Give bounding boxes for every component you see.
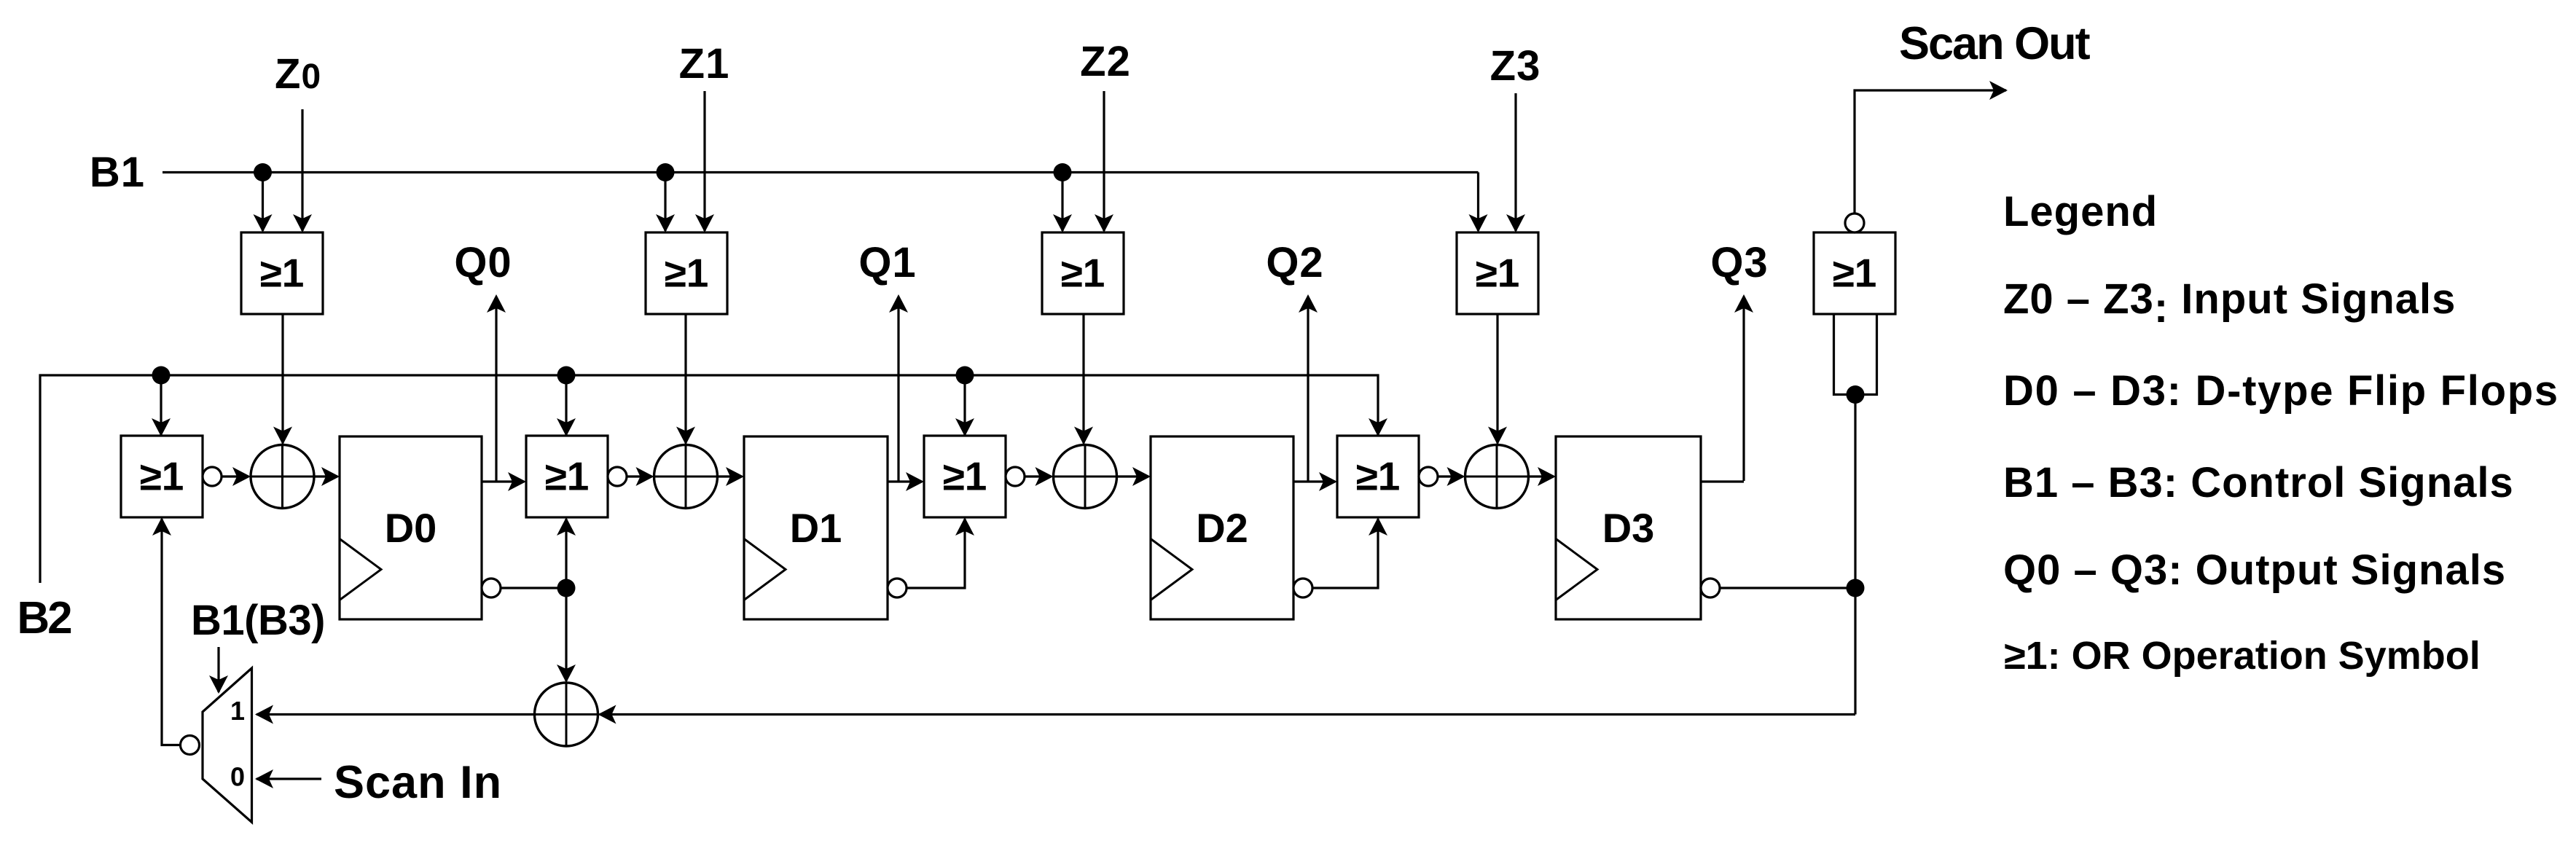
label Z1	[679, 40, 730, 87]
bubble D1 inverted output	[888, 579, 907, 597]
junction B1/O1	[254, 163, 272, 181]
svg-text:B2: B2	[17, 593, 71, 643]
svg-text:≥1: ≥1	[1476, 251, 1520, 296]
xor-gate X1	[251, 445, 314, 509]
flip-flop D0	[340, 436, 482, 619]
label Scan In	[334, 757, 502, 808]
svg-text:Scan Out: Scan Out	[1899, 18, 2091, 69]
svg-text:≥1: ≥1	[260, 251, 305, 296]
or-gate O4 (B1,Z3)	[1457, 232, 1538, 314]
legend line Z0-Z3	[2003, 275, 2456, 332]
wire Q3 riser	[1734, 294, 1753, 481]
flip-flop D3	[1556, 436, 1701, 619]
wire D2 Q output	[1293, 472, 1337, 491]
wire Z0 input	[293, 109, 312, 232]
svg-text:Q0: Q0	[454, 239, 512, 286]
wire Z1 input	[695, 91, 714, 232]
xor-gate X3	[1054, 445, 1117, 509]
wire Q2 riser	[1299, 294, 1318, 482]
svg-text:≥1: ≥1	[140, 454, 184, 499]
label Q3	[1710, 239, 1768, 286]
junction D0 Qbar node	[557, 579, 576, 597]
label Q1	[858, 239, 916, 286]
wire D0 Qbar to X5	[557, 588, 576, 683]
junction B1/O2	[657, 163, 675, 181]
wire O7 to X3	[1025, 467, 1054, 486]
wire X3 to D2 input	[1117, 467, 1151, 486]
svg-text:≥1: ≥1	[665, 251, 709, 296]
wire D3 Qbar	[1720, 587, 1855, 589]
svg-text:D2: D2	[1196, 505, 1248, 551]
wire B1 drop to O1	[254, 173, 273, 233]
wire D3 Q output	[1701, 480, 1744, 482]
wire Q1 riser	[889, 294, 908, 482]
or-gate O7	[924, 436, 1006, 517]
label Q0	[454, 239, 512, 286]
flip-flop D1	[744, 436, 888, 619]
junction B2/O5	[152, 366, 171, 385]
wire O5 to X1	[222, 467, 251, 486]
svg-text:Legend: Legend	[2003, 188, 2158, 235]
wire X5 to mux input 1	[255, 705, 535, 724]
wire B2 drop to O6	[557, 375, 576, 436]
legend line D0-D3	[2003, 367, 2559, 415]
wire Z3 input	[1506, 93, 1525, 232]
bubble O7 output	[1006, 467, 1025, 486]
bubble O8 output	[1419, 467, 1438, 486]
wire Scan Out	[1855, 81, 2008, 213]
junction O9 inputs	[1847, 385, 1865, 404]
wire D0 Qbar	[501, 587, 566, 589]
wire X1 to D0 input	[314, 467, 340, 486]
svg-text:≥1: ≥1	[545, 454, 590, 499]
bubble D0 inverted output	[482, 579, 501, 597]
svg-text:≥1: OR Operation Symbol: ≥1: OR Operation Symbol	[2004, 634, 2481, 678]
wire O2 output to X2	[676, 314, 695, 445]
svg-text:Z0: Z0	[275, 50, 321, 98]
svg-text:≥1: ≥1	[1833, 251, 1877, 296]
wire Scan In	[255, 769, 321, 788]
or-gate O8	[1337, 436, 1419, 517]
label Z3	[1490, 42, 1541, 90]
svg-text:D0: D0	[385, 505, 437, 551]
label Z2	[1080, 38, 1131, 85]
or-gate O9 (scan out)	[1814, 232, 1895, 314]
wire O6 to X2	[627, 467, 654, 486]
wire feedback vertical	[1854, 395, 1856, 715]
wire B2 bus	[40, 375, 1387, 583]
svg-text:0: 0	[230, 762, 245, 792]
wire O9 input loop	[1834, 314, 1877, 395]
flip-flop D2	[1151, 436, 1293, 619]
label Scan Out	[1899, 18, 2091, 69]
svg-text:1: 1	[230, 696, 245, 726]
svg-text:D1: D1	[790, 505, 842, 551]
svg-text:≥1: ≥1	[1356, 454, 1401, 499]
svg-text:Q0 – Q3: Output Signals: Q0 – Q3: Output Signals	[2003, 546, 2506, 594]
svg-text:D0 – D3: D-type Flip Flops: D0 – D3: D-type Flip Flops	[2003, 367, 2559, 415]
wire O3 output to X3	[1074, 314, 1093, 445]
bubble O9 output	[1845, 213, 1864, 232]
svg-text:≥1: ≥1	[943, 454, 987, 499]
wire Z2 input	[1095, 91, 1113, 232]
wire D1 Q output	[888, 472, 924, 491]
junction B2/O7	[956, 366, 974, 385]
wire B2 drop to O7	[955, 375, 974, 436]
or-gate O3 (B1,Z2)	[1042, 232, 1124, 314]
wire D1 Qbar to O7	[907, 517, 974, 588]
svg-text:B1(B3): B1(B3)	[191, 597, 325, 644]
wire X4 to D3 input	[1529, 467, 1557, 486]
wire mux select	[209, 647, 228, 694]
svg-text:B1 – B3: Control Signals: B1 – B3: Control Signals	[2003, 459, 2514, 506]
xor-gate X5 (feedback)	[535, 683, 598, 746]
wire O4 output to X4	[1488, 314, 1507, 445]
bubble O5 output	[203, 467, 222, 486]
mux M1	[203, 668, 252, 823]
bubble mux output	[181, 736, 200, 755]
svg-text:≥1: ≥1	[1061, 251, 1105, 296]
svg-text:Q2: Q2	[1266, 239, 1323, 286]
label B1(B3)	[191, 597, 325, 644]
bubble D3 inverted output	[1701, 579, 1720, 597]
junction D3 Qbar / feedback	[1847, 579, 1865, 597]
junction B1/O3	[1054, 163, 1072, 181]
label B2	[17, 593, 71, 643]
svg-text:Q3: Q3	[1710, 239, 1768, 286]
svg-text:B1: B1	[90, 149, 145, 196]
wire mux output to O5	[152, 517, 181, 745]
label Z0	[275, 50, 321, 98]
label B1	[90, 149, 145, 196]
svg-text:Scan In: Scan In	[334, 757, 502, 808]
label Legend	[2003, 188, 2158, 235]
xor-gate X4	[1465, 445, 1529, 509]
wire B1 bus	[163, 173, 1488, 233]
bubble O6 output	[608, 467, 627, 486]
wire B1 drop to O3	[1053, 173, 1072, 233]
legend line OR symbol	[2004, 634, 2481, 678]
svg-text:Q1: Q1	[858, 239, 916, 286]
wire Q0 riser	[487, 294, 506, 482]
wire D0 Qbar to O6	[557, 517, 576, 588]
legend line B1-B3	[2003, 459, 2514, 506]
wire feedback bottom	[598, 705, 1856, 724]
or-gate O5	[121, 436, 203, 517]
svg-text:Z1: Z1	[679, 40, 730, 87]
wire O8 to X4	[1438, 467, 1465, 486]
bubble D2 inverted output	[1293, 579, 1312, 597]
wire B2 drop to O5	[152, 375, 171, 436]
or-gate O6	[526, 436, 608, 517]
svg-text:D3: D3	[1602, 505, 1655, 551]
wire D0 Q output	[482, 472, 526, 491]
wire O1 output to X1	[273, 314, 292, 445]
wire B1 drop to O2	[656, 173, 675, 233]
label Q2	[1266, 239, 1323, 286]
junction B2/O6	[557, 366, 576, 385]
wire X2 to D1 input	[718, 467, 745, 486]
legend line Q0-Q3	[2003, 546, 2506, 594]
svg-text:Z2: Z2	[1080, 38, 1131, 85]
wire D2 Qbar to O8	[1312, 517, 1387, 588]
or-gate O1 (B1,Z0)	[241, 232, 323, 314]
xor-gate X2	[654, 445, 718, 509]
svg-text:Z3: Z3	[1490, 42, 1541, 90]
or-gate O2 (B1,Z1)	[646, 232, 727, 314]
